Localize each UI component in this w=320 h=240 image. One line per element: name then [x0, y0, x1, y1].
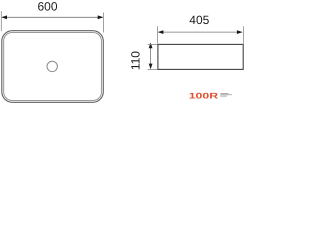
dim 110 line: [150, 44, 152, 69]
dim 110 top extension line: [148, 43, 158, 45]
drain circle: [47, 61, 57, 71]
dim 110 bottom extension line: [148, 68, 158, 70]
dim 600 left arrow: [1, 15, 7, 19]
dim 405 line: [159, 31, 242, 33]
dim 405 right extension line: [242, 26, 244, 44]
logo tagline line 1: [220, 92, 228, 95]
dim 110 bottom arrow: [149, 64, 153, 70]
svg-text:405: 405: [189, 13, 209, 27]
dim 600 right arrow: [98, 15, 104, 19]
svg-text:600: 600: [37, 0, 57, 13]
svg-text:100R: 100R: [189, 92, 218, 101]
top view outer contour: [2, 31, 104, 103]
logo tagline line 2: [220, 93, 232, 96]
dim 405 right arrow: [237, 30, 243, 34]
top view inner contour: [4, 33, 102, 101]
svg-text:110: 110: [129, 51, 143, 70]
dim 600 left extension line: [0, 11, 2, 31]
dim 600 right extension line: [103, 13, 105, 33]
logo tagline line 3: [220, 95, 227, 98]
dim 600 line: [2, 16, 102, 18]
dim 110 top arrow: [149, 43, 153, 49]
dim 405 left extension line: [157, 26, 159, 44]
dim 405 left arrow: [158, 30, 164, 34]
side view rectangle: [158, 44, 243, 69]
